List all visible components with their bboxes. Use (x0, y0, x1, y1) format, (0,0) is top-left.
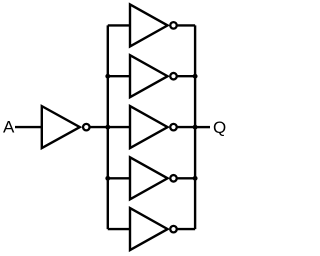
inverter U2 triangle (130, 4, 168, 46)
wire left bus to U5 input (108, 177, 131, 179)
junction right bus / U3 output (193, 74, 198, 79)
wire A to U1 input (15, 126, 42, 128)
junction right bus / U5 output (193, 176, 198, 181)
inverter U5 output bubble (170, 175, 177, 182)
inverter U1 (driver) triangle (42, 106, 80, 148)
wire U6 bubble to right bus (178, 228, 196, 230)
wire left bus to U6 input (108, 228, 131, 230)
junction left bus / U1 output / U4 input (105, 125, 110, 130)
left bus vertical wire (107, 25, 109, 229)
wire U1 bubble to left bus (90, 126, 108, 128)
wire left bus to U4 input (108, 126, 131, 128)
inverter U3 triangle (130, 55, 168, 97)
inverter U6 output bubble (170, 226, 177, 233)
inverter U3 output bubble (170, 73, 177, 80)
wire U2 bubble to right bus (178, 24, 196, 26)
inverter U6 triangle (130, 208, 168, 250)
junction right bus / U4 output / Q (193, 125, 198, 130)
inverter U4 triangle (130, 106, 168, 148)
wire left bus to U3 input (108, 75, 131, 77)
junction left bus / U3 input (105, 74, 110, 79)
wire left bus to U2 input (108, 24, 131, 26)
wire U3 bubble to right bus (178, 75, 196, 77)
svg-text:Q: Q (213, 118, 226, 137)
wire U4 bubble to right bus (178, 126, 196, 128)
right bus vertical wire (194, 25, 196, 229)
inverter U1 output bubble (83, 124, 90, 131)
inverter U2 output bubble (170, 22, 177, 29)
wire U5 bubble to right bus (178, 177, 196, 179)
junction left bus / U5 input (105, 176, 110, 181)
inverter U5 triangle (130, 157, 168, 199)
inverter U4 output bubble (170, 124, 177, 131)
wire right bus to Q (195, 126, 210, 128)
svg-text:A: A (3, 118, 15, 137)
